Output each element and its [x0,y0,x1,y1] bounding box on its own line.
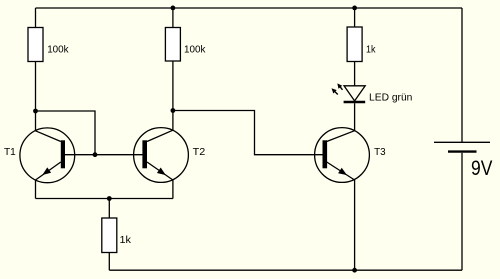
svg-text:T2: T2 [193,146,206,158]
svg-text:1k: 1k [120,234,132,246]
svg-text:100k: 100k [184,43,206,55]
svg-text:1k: 1k [366,43,376,55]
svg-text:T3: T3 [374,146,386,158]
svg-text:LED grün: LED grün [369,92,413,104]
svg-text:9V: 9V [471,157,492,180]
svg-text:100k: 100k [47,43,69,55]
svg-text:T1: T1 [4,146,16,158]
